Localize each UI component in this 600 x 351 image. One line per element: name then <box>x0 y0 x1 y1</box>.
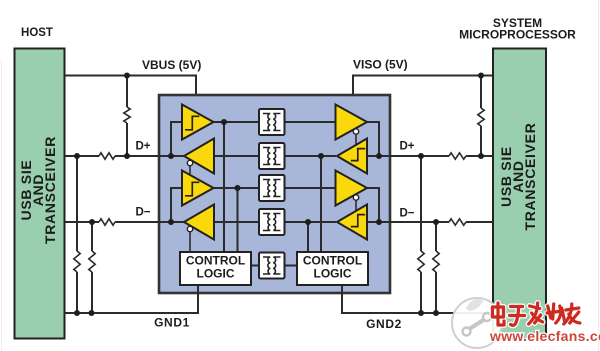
svg-text:CONTROL: CONTROL <box>186 254 245 268</box>
svg-text:VBUS (5V): VBUS (5V) <box>142 58 201 72</box>
svg-text:VISO (5V): VISO (5V) <box>353 58 408 72</box>
svg-text:D−: D− <box>135 207 150 219</box>
svg-text:TRANSCEIVER: TRANSCEIVER <box>42 136 58 244</box>
svg-text:LOGIC: LOGIC <box>314 267 352 281</box>
svg-text:D+: D+ <box>135 141 150 153</box>
svg-text:D+: D+ <box>399 141 414 153</box>
svg-text:LOGIC: LOGIC <box>197 267 235 281</box>
svg-text:CONTROL: CONTROL <box>303 254 362 268</box>
svg-text:GND1: GND1 <box>154 316 190 330</box>
svg-text:TRANSCEIVER: TRANSCEIVER <box>522 122 538 230</box>
svg-text:www.elecfans.com: www.elecfans.com <box>489 328 600 344</box>
svg-text:HOST: HOST <box>21 27 53 39</box>
svg-text:D−: D− <box>399 208 414 220</box>
svg-text:GND2: GND2 <box>366 317 402 331</box>
svg-text:MICROPROCESSOR: MICROPROCESSOR <box>459 28 576 42</box>
